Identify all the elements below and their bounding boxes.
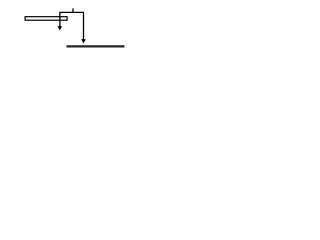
arrow B head (81, 39, 86, 43)
wire: arrow A shaft, top horizontal, arrow B shaft (60, 12, 84, 40)
beam bar (hollow rectangle) (25, 17, 67, 21)
wire up stub (72, 8, 74, 12)
ground thick line (67, 45, 125, 47)
arrow A head (58, 26, 63, 30)
